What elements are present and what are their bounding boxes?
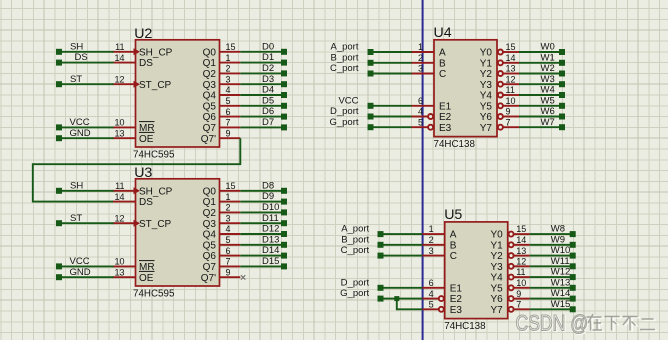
svg-text:14: 14 — [516, 235, 526, 245]
terminal of net D11 — [281, 220, 287, 226]
terminal of net VCC — [56, 263, 62, 269]
svg-text:Y5: Y5 — [480, 101, 493, 112]
U5 pin 9 (Y6) stub with inversion bubble — [509, 296, 514, 301]
svg-text:Q1: Q1 — [203, 197, 217, 208]
svg-text:Q3: Q3 — [203, 219, 217, 230]
svg-text:G_port: G_port — [329, 117, 358, 128]
wire net SH to U2 — [59, 51, 114, 53]
U4 pin 13 (Y2) stub with inversion bubble — [498, 71, 503, 76]
terminal of net W7 — [559, 124, 565, 130]
terminal of net D4 — [281, 92, 287, 98]
U2 pin 4 (Q4) stub — [220, 94, 241, 96]
svg-text:Y2: Y2 — [490, 251, 503, 262]
U2 pin 12 (ST_CP) stub — [113, 83, 135, 85]
svg-text:11: 11 — [516, 267, 525, 277]
svg-text:D15: D15 — [262, 256, 279, 267]
svg-text:W6: W6 — [541, 106, 555, 117]
svg-text:4: 4 — [418, 107, 423, 117]
svg-text:Q7: Q7 — [203, 123, 217, 134]
wire W15 from U5 Y7 — [530, 308, 573, 310]
terminal of net GND — [56, 274, 62, 280]
svg-text:Q2: Q2 — [203, 208, 217, 219]
svg-text:Q6: Q6 — [203, 251, 217, 262]
svg-text:74HC595: 74HC595 — [133, 150, 175, 161]
U5 pin 2 (B) stub — [422, 244, 445, 246]
wire D15 from U3 Q7 — [240, 265, 284, 267]
svg-text:D8: D8 — [262, 180, 274, 191]
wire W14 from U5 Y6 — [530, 298, 573, 300]
terminal of net W6 — [559, 114, 565, 120]
svg-text:U3: U3 — [134, 165, 152, 181]
wire net VCC to U4 — [371, 105, 412, 107]
U5 pin 10 (Y5) stub with inversion bubble — [509, 285, 514, 290]
svg-text:A: A — [439, 48, 446, 59]
svg-text:11: 11 — [506, 85, 515, 95]
U2 pin 14 (DS) stub — [113, 62, 136, 64]
svg-text:14: 14 — [506, 53, 516, 63]
svg-text:Q5: Q5 — [203, 101, 217, 112]
svg-text:SH: SH — [70, 41, 83, 52]
U3 pin 13 (OE) stub — [113, 276, 136, 278]
U4 pin 11 (Y4) stub with inversion bubble — [498, 93, 503, 98]
svg-text:7: 7 — [516, 300, 521, 310]
svg-text:10: 10 — [506, 96, 516, 106]
svg-text:ST_CP: ST_CP — [139, 80, 172, 91]
wire net D_port to U4 — [371, 116, 412, 118]
svg-text:1: 1 — [226, 192, 231, 202]
U3 pin 15 (Q0) stub — [220, 190, 241, 192]
U4 pin 14 (Y1) stub with inversion bubble — [498, 60, 503, 65]
svg-text:Y5: Y5 — [490, 283, 503, 294]
svg-text:15: 15 — [226, 42, 236, 52]
svg-text:SH: SH — [70, 180, 83, 191]
terminal of net W13 — [570, 285, 576, 291]
svg-text:9: 9 — [226, 267, 231, 277]
wire D12 from U3 Q4 — [240, 233, 284, 235]
svg-text:W15: W15 — [551, 299, 571, 310]
svg-text:Y7: Y7 — [480, 123, 493, 134]
svg-text:D14: D14 — [262, 245, 279, 256]
svg-text:D_port: D_port — [330, 106, 359, 117]
wire W5 from U4 Y5 — [519, 105, 562, 107]
terminal of net SH — [56, 188, 62, 194]
svg-text:VCC: VCC — [70, 256, 90, 267]
terminal of net D10 — [281, 209, 287, 215]
terminal of net W14 — [570, 296, 576, 302]
wire D4 from U2 Q4 — [240, 94, 284, 96]
terminal of net W5 — [559, 103, 565, 109]
terminal of net A_port at U5 — [378, 231, 384, 237]
terminal of net D9 — [281, 199, 287, 205]
svg-text:ST: ST — [70, 213, 82, 224]
terminal of net W4 — [559, 92, 565, 98]
svg-text:9: 9 — [516, 289, 521, 299]
U4 pin 1 (A) stub — [412, 51, 435, 53]
U5 pin 4 (E2) stub — [422, 298, 438, 300]
svg-text:Q7': Q7' — [201, 134, 216, 145]
svg-text:Q7': Q7' — [201, 273, 216, 284]
wire net DS to U2 — [59, 62, 114, 64]
svg-text:7: 7 — [226, 257, 231, 267]
svg-text:15: 15 — [506, 42, 516, 52]
terminal of net ST — [56, 220, 62, 226]
svg-text:W1: W1 — [541, 52, 555, 63]
svg-text:D12: D12 — [262, 224, 279, 235]
terminal of net A_port at U4 — [368, 49, 374, 55]
svg-text:10: 10 — [114, 118, 124, 128]
terminal of net VCC at U4 — [368, 103, 374, 109]
terminal of net W8 — [570, 231, 576, 237]
U4 pin 2 (B) stub — [412, 62, 435, 64]
terminal of net D13 — [281, 242, 287, 248]
junction on G_port net — [394, 296, 399, 301]
svg-text:Y2: Y2 — [480, 69, 493, 80]
svg-text:W9: W9 — [551, 234, 565, 245]
svg-text:Q5: Q5 — [203, 240, 217, 251]
U2 pin 3 (Q3) stub — [220, 83, 241, 85]
svg-text:5: 5 — [418, 118, 423, 128]
svg-text:Y0: Y0 — [490, 230, 503, 241]
wire net C_port to U4 — [371, 73, 412, 75]
svg-text:6: 6 — [418, 96, 423, 106]
svg-text:2: 2 — [226, 64, 231, 74]
wire W11 from U5 Y3 — [530, 265, 573, 267]
svg-text:D1: D1 — [262, 52, 274, 63]
svg-text:Y4: Y4 — [490, 273, 503, 284]
wire net B_port to U5 — [381, 244, 423, 246]
svg-text:Y1: Y1 — [480, 58, 493, 69]
wire net GND to U2 — [59, 137, 114, 139]
svg-text:13: 13 — [114, 128, 124, 138]
U3 pin 12 (ST_CP) stub — [113, 222, 135, 224]
svg-text:E2: E2 — [450, 294, 463, 305]
wire net ST to U2 — [59, 83, 114, 85]
U4 pin 15 (Y0) stub with inversion bubble — [498, 50, 503, 55]
U2 pin 13 (OE) stub — [113, 137, 136, 139]
terminal of net W0 — [559, 49, 565, 55]
U2 pin 10 (MR) stub — [113, 126, 136, 128]
svg-text:Y7: Y7 — [490, 305, 503, 316]
terminal of net W15 — [570, 306, 576, 312]
svg-text:2: 2 — [429, 235, 434, 245]
svg-text:Q0: Q0 — [203, 47, 217, 58]
U3 pin 9 unconnected cross marker — [241, 275, 245, 279]
svg-text:3: 3 — [226, 213, 231, 223]
svg-text:Y3: Y3 — [490, 262, 503, 273]
svg-text:C: C — [450, 251, 457, 262]
U5 pin 3 (C) stub — [422, 255, 445, 257]
terminal of net GND — [56, 135, 62, 141]
wire net VCC to U3 — [59, 265, 114, 267]
svg-text:4: 4 — [429, 289, 434, 299]
terminal of net D7 — [281, 124, 287, 130]
wire branch G_port to U5 E3 — [397, 299, 422, 310]
wire net GND to U3 — [59, 276, 114, 278]
svg-text:E3: E3 — [450, 305, 463, 316]
svg-text:ST: ST — [70, 74, 82, 85]
U5 pin 5 (E3) stub — [422, 308, 438, 310]
svg-text:E3: E3 — [439, 123, 452, 134]
svg-text:OE: OE — [139, 134, 154, 145]
wire net SH to U3 — [59, 190, 114, 192]
wire W3 from U4 Y3 — [519, 83, 562, 85]
U4 pin 5 (E3) stub — [412, 126, 428, 128]
wire D2 from U2 Q2 — [240, 72, 284, 74]
svg-text:W8: W8 — [551, 224, 565, 235]
svg-text:15: 15 — [226, 181, 236, 191]
svg-text:Y4: Y4 — [480, 91, 493, 102]
svg-text:12: 12 — [114, 74, 124, 84]
svg-text:OE: OE — [139, 273, 154, 284]
wire D13 from U3 Q5 — [240, 244, 284, 246]
svg-text:DS: DS — [75, 52, 88, 63]
terminal of net W11 — [570, 263, 576, 269]
wire D1 from U2 Q1 — [240, 62, 284, 64]
wire net C_port to U5 — [381, 255, 423, 257]
svg-text:9: 9 — [226, 128, 231, 138]
U3 pin 6 (Q6) stub — [220, 255, 241, 257]
terminal of net D15 — [281, 263, 287, 269]
U2 pin 9 (Q7') stub — [220, 137, 241, 139]
U5 pin 15 (Y0) stub with inversion bubble — [509, 232, 514, 237]
svg-text:Q7: Q7 — [203, 262, 217, 273]
terminal of net C_port at U4 — [368, 71, 374, 77]
U4 pin 3 (C) stub — [412, 73, 435, 75]
U2 pin 2 (Q2) stub — [220, 72, 241, 74]
U2 pin 5 (Q5) stub — [220, 105, 241, 107]
terminal of net B_port at U4 — [368, 60, 374, 66]
wire W2 from U4 Y2 — [519, 73, 562, 75]
wire W4 from U4 Y4 — [519, 94, 562, 96]
terminal of net W9 — [570, 242, 576, 248]
U4 pin 4 (E2) stub — [412, 116, 428, 118]
svg-text:9: 9 — [506, 107, 511, 117]
terminal of net D2 — [281, 70, 287, 76]
svg-text:5: 5 — [226, 96, 231, 106]
svg-text:1: 1 — [418, 42, 423, 52]
svg-text:W13: W13 — [551, 277, 571, 288]
svg-text:10: 10 — [516, 278, 526, 288]
svg-text:1: 1 — [226, 53, 231, 63]
wire D0 from U2 Q0 — [240, 51, 284, 53]
svg-text:Q1: Q1 — [203, 58, 217, 69]
terminal of net DS — [56, 60, 62, 66]
wire D14 from U3 Q6 — [240, 255, 284, 257]
wire W6 from U4 Y6 — [519, 116, 562, 118]
U3 pin 1 (Q1) stub — [220, 201, 241, 203]
svg-text:W12: W12 — [551, 267, 571, 278]
U5 pin 6 (E1) stub — [422, 287, 445, 289]
U3 pin 5 (Q5) stub — [220, 244, 241, 246]
U2 pin 1 (Q1) stub — [220, 62, 241, 64]
svg-text:W14: W14 — [551, 288, 571, 299]
svg-text:3: 3 — [418, 64, 423, 74]
wire D10 from U3 Q2 — [240, 211, 284, 213]
svg-text:B: B — [450, 240, 457, 251]
U3 pin 4 (Q4) stub — [220, 233, 241, 235]
blue sheet border line — [422, 0, 424, 340]
terminal of net D6 — [281, 114, 287, 120]
U4 pin 6 (E1) stub — [412, 105, 435, 107]
wire net A_port to U4 — [371, 51, 412, 53]
U3 pin 10 (MR) stub — [113, 265, 136, 267]
svg-text:11: 11 — [115, 181, 124, 191]
svg-text:D13: D13 — [262, 234, 279, 245]
svg-text:D_port: D_port — [341, 277, 370, 288]
svg-text:U2: U2 — [134, 26, 152, 42]
svg-text:CSDN @: CSDN @ — [516, 312, 589, 336]
svg-text:W4: W4 — [541, 85, 555, 96]
svg-text:7: 7 — [226, 118, 231, 128]
svg-text:13: 13 — [506, 64, 516, 74]
wire D11 from U3 Q3 — [240, 222, 284, 224]
terminal of net D3 — [281, 81, 287, 87]
CSDN watermark text (embossed) — [516, 312, 658, 337]
svg-text:D9: D9 — [262, 191, 274, 202]
svg-text:SH_CP: SH_CP — [139, 47, 173, 58]
terminal of net ST — [56, 81, 62, 87]
svg-text:Y1: Y1 — [490, 240, 503, 251]
U3 pin 3 (Q3) stub — [220, 222, 241, 224]
U5 pin 11 (Y4) stub with inversion bubble — [509, 275, 514, 280]
svg-text:D3: D3 — [262, 74, 274, 85]
wire W0 from U4 Y0 — [519, 51, 562, 53]
wire D5 from U2 Q5 — [240, 105, 284, 107]
U5 pin 7 (Y7) stub with inversion bubble — [509, 307, 514, 312]
wire net G_port to U5 — [381, 298, 423, 300]
svg-text:GND: GND — [70, 267, 91, 278]
svg-text:Q2: Q2 — [203, 69, 217, 80]
svg-text:W0: W0 — [541, 42, 555, 53]
svg-text:C_port: C_port — [341, 245, 370, 256]
svg-text:7: 7 — [506, 118, 511, 128]
svg-text:12: 12 — [516, 257, 526, 267]
svg-text:12: 12 — [506, 75, 516, 85]
svg-text:Q3: Q3 — [203, 80, 217, 91]
U5 pin 14 (Y1) stub with inversion bubble — [509, 242, 514, 247]
wire D8 from U3 Q0 — [240, 190, 284, 192]
svg-text:DS: DS — [139, 58, 153, 69]
U4 pin 7 (Y7) stub with inversion bubble — [498, 125, 503, 130]
terminal of net VCC — [56, 124, 62, 130]
svg-text:Q4: Q4 — [203, 230, 217, 241]
wire W7 from U4 Y7 — [519, 126, 562, 128]
terminal of net D_port at U5 — [378, 285, 384, 291]
terminal of net W12 — [570, 274, 576, 280]
wire net G_port to U4 — [371, 126, 412, 128]
svg-text:W2: W2 — [541, 63, 555, 74]
terminal of net C_port at U5 — [378, 253, 384, 259]
svg-text:B_port: B_port — [331, 52, 359, 63]
svg-text:3: 3 — [226, 74, 231, 84]
svg-text:U5: U5 — [444, 207, 462, 223]
svg-text:ST_CP: ST_CP — [139, 219, 172, 230]
svg-text:10: 10 — [114, 257, 124, 267]
U2 pin 11 (SH_CP) stub — [113, 51, 135, 53]
terminal of net G_port at U5 — [378, 296, 384, 302]
wire net ST to U3 — [59, 222, 114, 224]
svg-text:E1: E1 — [439, 101, 452, 112]
terminal of net W3 — [559, 81, 565, 87]
wire W13 from U5 Y5 — [530, 287, 573, 289]
svg-text:Q0: Q0 — [203, 186, 217, 197]
wire net A_port to U5 — [381, 233, 423, 235]
svg-text:Y6: Y6 — [480, 112, 493, 123]
wire W8 from U5 Y0 — [530, 233, 573, 235]
svg-text:D2: D2 — [262, 63, 274, 74]
terminal of net D1 — [281, 60, 287, 66]
svg-text:D6: D6 — [262, 106, 274, 117]
svg-text:W3: W3 — [541, 74, 555, 85]
svg-text:74HC138: 74HC138 — [434, 139, 476, 150]
svg-text:14: 14 — [114, 192, 124, 202]
svg-text:B_port: B_port — [341, 234, 369, 245]
svg-text:1: 1 — [429, 224, 434, 234]
wire D9 from U3 Q1 — [240, 201, 284, 203]
svg-text:5: 5 — [429, 300, 434, 310]
svg-text:6: 6 — [226, 107, 231, 117]
wire D3 from U2 Q3 — [240, 83, 284, 85]
U2 pin 15 (Q0) stub — [220, 51, 241, 53]
svg-text:4: 4 — [226, 224, 231, 234]
svg-text:VCC: VCC — [338, 95, 358, 106]
terminal of net D5 — [281, 103, 287, 109]
svg-text:U4: U4 — [434, 25, 452, 41]
terminal of net D14 — [281, 253, 287, 259]
terminal of net W1 — [559, 60, 565, 66]
terminal of net W2 — [559, 71, 565, 77]
svg-text:6: 6 — [226, 246, 231, 256]
svg-text:G_port: G_port — [340, 288, 369, 299]
wire W10 from U5 Y2 — [530, 255, 573, 257]
terminal of net D12 — [281, 231, 287, 237]
svg-text:6: 6 — [429, 278, 434, 288]
svg-text:C_port: C_port — [330, 63, 359, 74]
svg-text:W11: W11 — [551, 256, 570, 267]
svg-text:Q4: Q4 — [203, 91, 217, 102]
svg-text:DS: DS — [139, 197, 153, 208]
svg-text:3: 3 — [429, 246, 434, 256]
svg-text:D4: D4 — [262, 85, 274, 96]
svg-text:15: 15 — [516, 224, 526, 234]
svg-text:2: 2 — [418, 53, 423, 63]
terminal of net SH — [56, 49, 62, 55]
svg-text:11: 11 — [115, 42, 124, 52]
wire from U2 Q7' (pin 9) to U3 DS (pin 14) cascade loop — [33, 138, 241, 201]
svg-text:Y3: Y3 — [480, 80, 493, 91]
svg-text:13: 13 — [114, 267, 124, 277]
U4 pin 10 (Y5) stub with inversion bubble — [498, 103, 503, 108]
svg-text:D5: D5 — [262, 95, 274, 106]
wire net D_port to U5 — [381, 287, 423, 289]
U5 pin 12 (Y3) stub with inversion bubble — [509, 264, 514, 269]
svg-text:Y0: Y0 — [480, 48, 493, 59]
svg-text:A_port: A_port — [331, 42, 359, 53]
svg-text:5: 5 — [226, 235, 231, 245]
svg-text:74HC595: 74HC595 — [133, 289, 175, 300]
svg-text:W10: W10 — [551, 245, 571, 256]
U5 pin 1 (A) stub — [422, 233, 445, 235]
svg-text:13: 13 — [516, 246, 526, 256]
wire net B_port to U4 — [371, 62, 412, 64]
svg-text:Q6: Q6 — [203, 112, 217, 123]
wire W9 from U5 Y1 — [530, 244, 573, 246]
svg-text:A: A — [450, 230, 457, 241]
terminal of net W10 — [570, 253, 576, 259]
U4 pin 9 (Y6) stub with inversion bubble — [498, 114, 503, 119]
svg-text:B: B — [439, 58, 446, 69]
svg-text:12: 12 — [114, 213, 124, 223]
